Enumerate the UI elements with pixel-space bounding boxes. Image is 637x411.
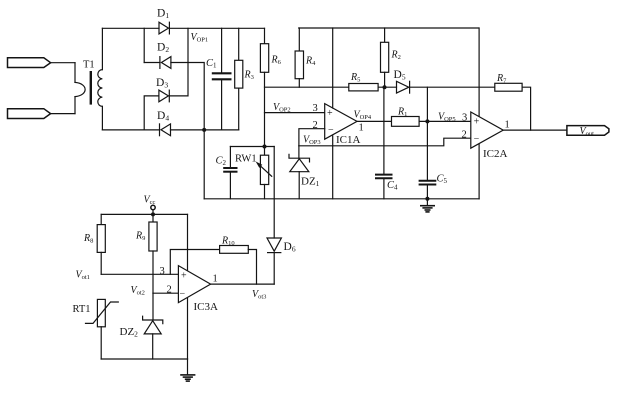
Vcc terminal circle: [151, 205, 155, 209]
svg-text:C1: C1: [206, 58, 217, 70]
wire D3 row left drop: [144, 96, 159, 130]
svg-text:IC3A: IC3A: [194, 301, 219, 313]
svg-text:RT1: RT1: [73, 304, 91, 315]
wire R5 row: [265, 86, 349, 88]
diode D1: [159, 22, 169, 34]
svg-text:RW1: RW1: [235, 154, 257, 165]
wire IC3A bottom rail: [101, 358, 187, 360]
ground symbol (IC3A): [181, 359, 195, 381]
svg-text:R8: R8: [83, 233, 93, 245]
svg-text:C2: C2: [216, 156, 227, 168]
svg-text:D2: D2: [157, 42, 169, 55]
wire Vcc stub: [152, 210, 154, 215]
wire node A drop to D2: [143, 28, 145, 62]
wire main box top: [299, 27, 479, 29]
resistor R10 feedback: [170, 246, 256, 285]
svg-text:DZ2: DZ2: [120, 326, 139, 339]
svg-text:1: 1: [213, 274, 218, 285]
wire top rail right of D1: [169, 27, 264, 29]
op-amp IC3A: [178, 266, 210, 303]
svg-text:2: 2: [313, 120, 318, 131]
wire R7 row: [479, 86, 495, 88]
diode D5: [397, 81, 480, 93]
IC3A supply line bottom: [187, 297, 189, 359]
resistor R2: [381, 28, 389, 87]
wire Vcc rail: [101, 213, 187, 215]
ground symbol (main): [421, 199, 434, 212]
diode D6: [267, 238, 281, 284]
svg-text:Vout: Vout: [580, 126, 595, 138]
svg-text:1: 1: [359, 123, 364, 134]
input probe J1 (top): [8, 58, 51, 68]
resistor R3: [235, 28, 243, 130]
IC1A supply line bottom: [332, 136, 334, 199]
svg-text:+: +: [474, 117, 480, 128]
wire IC3A output row: [211, 283, 275, 285]
junction node D: [202, 128, 206, 132]
resistor R1: [392, 117, 471, 127]
svg-text:3: 3: [313, 103, 318, 114]
svg-text:−: −: [474, 134, 480, 145]
svg-text:Vot2: Vot2: [131, 285, 145, 297]
svg-text:2: 2: [167, 285, 172, 296]
svg-text:1: 1: [505, 120, 510, 131]
svg-text:Vcc: Vcc: [144, 194, 156, 206]
svg-text:−: −: [328, 125, 334, 136]
wire D2 anode to bottom junction: [171, 63, 204, 130]
junction ground node: [425, 197, 429, 201]
svg-text:VOP5: VOP5: [438, 112, 456, 124]
svg-text:+: +: [181, 271, 187, 282]
svg-text:C4: C4: [387, 180, 398, 192]
capacitor C2: [224, 147, 236, 199]
svg-text:VOP3: VOP3: [303, 135, 321, 147]
svg-text:R6: R6: [271, 55, 282, 67]
svg-text:+: +: [327, 108, 333, 119]
svg-text:D6: D6: [284, 241, 296, 254]
wire secondary top to rail: [101, 28, 103, 69]
wire main box left edge: [203, 130, 205, 199]
junction V_OP5: [425, 119, 429, 123]
wire probe J2 to transformer primary: [51, 113, 75, 115]
wire RW1 top node row: [230, 146, 274, 148]
svg-text:D3: D3: [156, 77, 168, 90]
svg-text:DZ1: DZ1: [301, 175, 320, 188]
wire pin 3 row IC3A: [101, 273, 178, 275]
IC2A supply line top: [478, 28, 480, 116]
IC2A supply line bottom: [478, 144, 480, 199]
wire D5 row to V_OP5 node: [426, 87, 428, 121]
IC1A supply line top: [332, 28, 334, 108]
input probe J2 (bottom): [8, 109, 51, 119]
wire bottom rail right of D4: [171, 129, 239, 131]
output connector V_out: [567, 126, 609, 136]
resistor R8: [97, 214, 105, 274]
svg-text:2: 2: [462, 130, 467, 141]
capacitor C5: [420, 121, 436, 198]
potentiometer RW1: [256, 147, 272, 199]
svg-text:R4: R4: [305, 56, 316, 68]
wire D2 row left: [144, 62, 160, 64]
IC3A supply line top: [187, 214, 189, 270]
zener DZ1: [289, 146, 310, 199]
wire secondary bottom to rail: [101, 106, 103, 129]
svg-text:R5: R5: [350, 72, 360, 84]
wire pin 2 row IC3A: [153, 292, 178, 294]
op-amp IC1A: [325, 104, 357, 140]
junction Vcc rail: [151, 212, 155, 216]
wire D3 cathode up to V_OP1 rail: [169, 28, 188, 96]
resistor R6: [260, 28, 268, 146]
diode D3: [159, 90, 169, 102]
wire probe J1 to transformer primary: [51, 62, 75, 64]
thermistor RT1: [86, 299, 119, 359]
wire main box bottom rail: [204, 198, 479, 200]
wire V_OP3 row to IC2A pin 2: [299, 138, 471, 146]
svg-text:3: 3: [160, 266, 165, 277]
resistor R7: [495, 83, 531, 130]
svg-text:VOP4: VOP4: [354, 110, 372, 122]
wire V_OP2 row to pin 3: [265, 112, 325, 114]
svg-text:D1: D1: [157, 8, 169, 21]
svg-text:T1: T1: [83, 60, 95, 71]
wire V_OP4 output row: [357, 120, 392, 122]
svg-text:Vot1: Vot1: [76, 270, 90, 282]
svg-text:IC2A: IC2A: [483, 148, 508, 160]
svg-text:−: −: [180, 288, 186, 299]
wire pin 2 row IC1A: [299, 129, 325, 146]
svg-text:VOP1: VOP1: [191, 32, 209, 44]
svg-text:R10: R10: [221, 236, 235, 248]
wire D6 column upper: [273, 147, 275, 239]
svg-text:R7: R7: [496, 73, 507, 85]
svg-text:Vot3: Vot3: [252, 289, 266, 301]
zener DZ2: [143, 293, 163, 359]
svg-text:R9: R9: [135, 231, 145, 243]
capacitor C1: [213, 28, 231, 130]
svg-text:IC1A: IC1A: [336, 134, 361, 146]
svg-text:C5: C5: [437, 174, 448, 186]
wire top rail left: [102, 27, 159, 29]
diode D4: [160, 124, 171, 136]
op-amp IC2A: [471, 112, 503, 148]
svg-text:D4: D4: [157, 110, 169, 123]
wire IC2A output row: [503, 129, 567, 131]
svg-text:3: 3: [462, 113, 467, 124]
junction R2/R5/D5: [383, 85, 387, 89]
resistor R9: [149, 214, 157, 293]
svg-text:R2: R2: [391, 50, 401, 62]
svg-text:R1: R1: [397, 107, 407, 119]
wire bottom rail left: [102, 129, 159, 131]
svg-text:VOP2: VOP2: [273, 102, 291, 114]
capacitor C4: [376, 87, 392, 199]
resistor R4: [295, 28, 303, 87]
junction RW1 top: [263, 145, 267, 149]
svg-text:R3: R3: [244, 70, 254, 82]
resistor R5: [349, 84, 397, 91]
diode D2: [160, 57, 171, 69]
svg-text:D5: D5: [394, 69, 406, 82]
transformer T1: [75, 63, 102, 114]
